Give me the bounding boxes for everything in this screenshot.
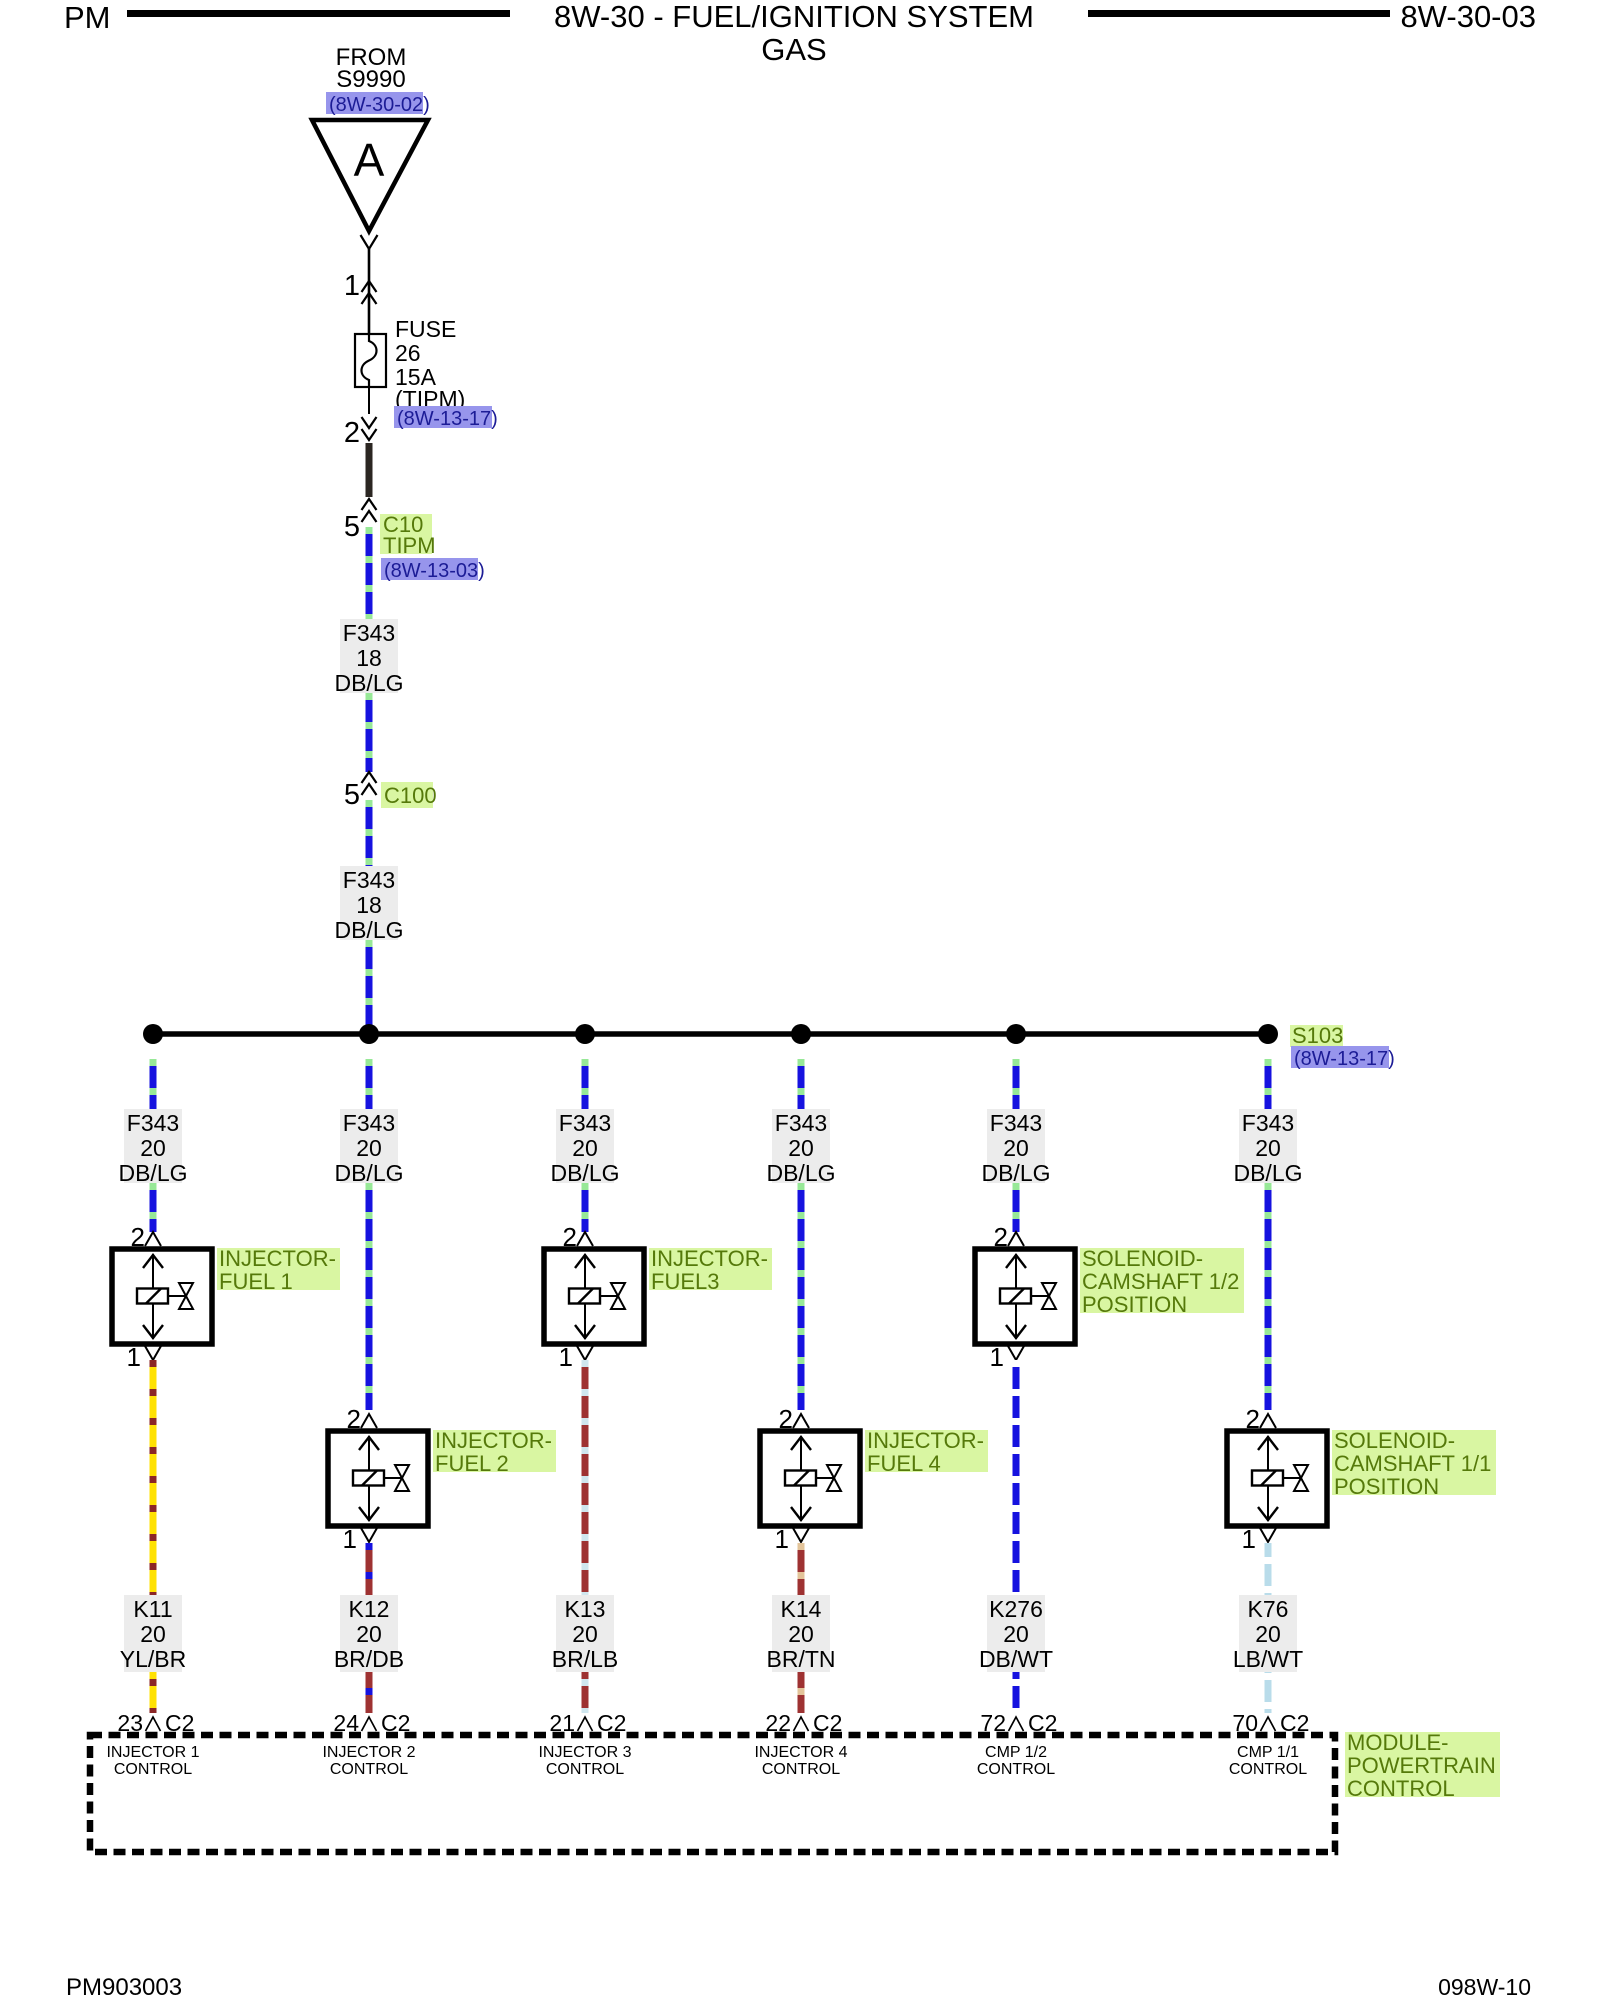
svg-text:DB/LG: DB/LG [334,1160,403,1186]
module POWERTRAIN CONTROL dashed box [90,1735,1335,1852]
svg-text:K12: K12 [349,1596,390,1622]
wire DB/LG to pin 2 [366,1183,373,1410]
wire label F343 20 DB/LG x=801 [766,1109,835,1186]
svg-text:20: 20 [356,1621,382,1647]
reference (8W-30-02) [326,92,430,116]
wire DB/LG to pin 2 [1013,1183,1020,1232]
wire K12 BR/DB [366,1543,373,1713]
pin chevron at PCM [794,1717,809,1731]
svg-text:FUEL 4: FUEL 4 [867,1451,941,1476]
pin 1 chevron [793,1528,809,1542]
wire label F343 20 DB/LG x=1268 [1233,1109,1302,1186]
junction dot at x=1016 [1006,1024,1026,1044]
svg-text:20: 20 [572,1135,598,1161]
solenoid CAMSHAFT 1/1 POSITION [1227,1431,1327,1526]
svg-text:K76: K76 [1248,1596,1289,1622]
wire label K12 20 BR/DB [334,1595,404,1672]
wire below fuse [368,387,370,414]
fuse 26 15A TIPM [355,334,386,387]
pin 2 chevron [1260,1414,1276,1428]
wire F343 18 DB/LG segment 1 [366,527,373,619]
svg-text:(8W-30-02): (8W-30-02) [329,94,430,116]
svg-text:1: 1 [775,1524,789,1554]
svg-text:BR/DB: BR/DB [334,1646,404,1672]
pin 2 chevron [145,1232,161,1246]
svg-text:DB/WT: DB/WT [979,1646,1053,1672]
wire label K13 20 BR/LB [552,1595,618,1672]
header rule right [1088,10,1390,17]
wire K13 BR/LB [582,1360,589,1713]
svg-text:SOLENOID-: SOLENOID- [1334,1428,1455,1453]
wire label F343 20 DB/LG x=153 [118,1109,187,1186]
label solenoid CAMSHAFT 1/2 POSITION [1080,1246,1244,1317]
svg-text:20: 20 [356,1135,382,1161]
svg-text:INJECTOR-: INJECTOR- [867,1428,984,1453]
svg-text:8W-30 - FUEL/IGNITION SYSTEM: 8W-30 - FUEL/IGNITION SYSTEM [554,0,1034,34]
wire F343 18 DB/LG segment 2 [366,693,373,772]
svg-text:5: 5 [344,779,360,811]
svg-text:20: 20 [572,1621,598,1647]
svg-text:GAS: GAS [761,32,826,67]
svg-text:INJECTOR 4: INJECTOR 4 [754,1744,847,1761]
svg-text:C100: C100 [384,783,437,808]
wire BK black segment [366,443,373,497]
junction dot at x=369 [359,1024,379,1044]
connector C10 TIPM label [380,512,436,558]
svg-text:S9990: S9990 [336,66,405,93]
label injector INJECTOR-FUEL 1 [217,1246,340,1294]
svg-text:CONTROL: CONTROL [1347,1776,1455,1801]
header rule left [127,10,510,17]
svg-text:POSITION: POSITION [1082,1292,1187,1317]
pin chevron at PCM [578,1717,593,1731]
wire label F343 18 DB/LG lower [334,866,403,943]
pin 1 chevron [1008,1346,1024,1360]
wire K276 DB/WT [1013,1360,1020,1713]
injector INJECTOR-FUEL 2 [328,1431,428,1526]
junction dot at x=153 [143,1024,163,1044]
wire K11 YL/BR [150,1360,157,1713]
wire F343 20 DB/LG branch x=153 [150,1059,157,1109]
svg-text:FUEL 2: FUEL 2 [435,1451,509,1476]
svg-text:1: 1 [344,270,360,302]
solenoid CAMSHAFT 1/2 POSITION [975,1249,1075,1344]
label injector INJECTOR-FUEL 4 [865,1428,988,1476]
svg-text:20: 20 [788,1621,814,1647]
wire F343 18 DB/LG segment 3 [366,800,373,866]
wire label F343 20 DB/LG x=369 [334,1109,403,1186]
svg-text:26: 26 [395,340,421,366]
pin 1 chevron [361,1528,377,1542]
svg-text:20: 20 [140,1621,166,1647]
pin 1 chevron [1260,1528,1276,1542]
svg-text:K13: K13 [565,1596,606,1622]
wire label K14 20 BR/TN [767,1595,836,1672]
svg-text:DB/LG: DB/LG [118,1160,187,1186]
pin chevron at PCM [1009,1717,1024,1731]
svg-text:YL/BR: YL/BR [120,1646,186,1672]
wire label F343 20 DB/LG x=585 [550,1109,619,1186]
svg-text:20: 20 [1255,1135,1281,1161]
wire F343 20 DB/LG branch x=1268 [1265,1059,1272,1109]
svg-text:F343: F343 [343,867,395,893]
svg-text:CONTROL: CONTROL [114,1761,192,1778]
svg-text:K11: K11 [133,1596,172,1622]
svg-text:20: 20 [1003,1621,1029,1647]
wire DB/LG to pin 2 [798,1183,805,1410]
off-page connector A from S9990 [312,120,428,231]
svg-text:DB/LG: DB/LG [766,1160,835,1186]
flow arrows down [362,429,377,440]
svg-text:F343: F343 [775,1110,827,1136]
svg-text:TIPM: TIPM [383,533,436,558]
svg-text:BR/LB: BR/LB [552,1646,618,1672]
svg-text:CMP 1/2: CMP 1/2 [985,1744,1047,1761]
connector C10 chevrons [362,499,377,510]
svg-text:20: 20 [1003,1135,1029,1161]
svg-text:FUEL3: FUEL3 [651,1269,719,1294]
svg-text:1: 1 [343,1524,357,1554]
label MODULE-POWERTRAIN CONTROL [1345,1730,1500,1801]
svg-text:FUEL 1: FUEL 1 [219,1269,293,1294]
svg-text:POSITION: POSITION [1334,1474,1439,1499]
svg-text:INJECTOR 2: INJECTOR 2 [322,1744,415,1761]
svg-text:INJECTOR-: INJECTOR- [651,1246,768,1271]
wire F343 18 DB/LG segment 4 [366,940,373,1034]
svg-text:18: 18 [356,645,382,671]
svg-text:F343: F343 [343,1110,395,1136]
svg-text:FUSE: FUSE [395,316,456,342]
reference (8W-13-03) [381,558,485,582]
junction dot at x=585 [575,1024,595,1044]
svg-text:DB/LG: DB/LG [334,917,403,943]
svg-text:F343: F343 [559,1110,611,1136]
svg-text:20: 20 [1255,1621,1281,1647]
wire K76 LB/WT [1265,1543,1272,1713]
label injector INJECTOR-FUEL 2 [433,1428,556,1476]
svg-text:CMP 1/1: CMP 1/1 [1237,1744,1299,1761]
svg-text:CONTROL: CONTROL [546,1761,624,1778]
svg-text:LB/WT: LB/WT [1233,1646,1303,1672]
pin 2 chevron [361,1414,377,1428]
svg-text:2: 2 [344,417,360,449]
wire DB/LG to pin 2 [582,1183,589,1232]
wire DB/LG to pin 2 [150,1183,157,1232]
svg-text:INJECTOR 1: INJECTOR 1 [106,1744,199,1761]
svg-text:INJECTOR-: INJECTOR- [435,1428,552,1453]
svg-text:SOLENOID-: SOLENOID- [1082,1246,1203,1271]
svg-text:DB/LG: DB/LG [550,1160,619,1186]
svg-text:5: 5 [344,511,360,543]
svg-text:20: 20 [140,1135,166,1161]
connector chevron below A [361,235,378,249]
injector INJECTOR-FUEL 1 [112,1249,212,1344]
pin 2 chevron [1008,1232,1024,1246]
pin 1 chevron [577,1346,593,1360]
svg-text:A: A [354,134,385,186]
injector INJECTOR-FUEL 4 [760,1431,860,1526]
splice bus S103 [148,1031,1272,1037]
svg-text:DB/LG: DB/LG [334,670,403,696]
pin 2 chevron [793,1414,809,1428]
pin chevron at PCM [362,1717,377,1731]
svg-text:K14: K14 [781,1596,822,1622]
svg-text:S103: S103 [1292,1023,1343,1048]
svg-text:POWERTRAIN: POWERTRAIN [1347,1753,1496,1778]
wire label K11 20 YL/BR [120,1595,186,1672]
svg-text:CONTROL: CONTROL [1229,1761,1307,1778]
wire DB/LG to pin 2 [1265,1183,1272,1410]
connector C100 label [381,782,437,808]
svg-text:DB/LG: DB/LG [1233,1160,1302,1186]
label injector INJECTOR-FUEL 3 [649,1246,772,1294]
svg-text:INJECTOR-: INJECTOR- [219,1246,336,1271]
wire F343 20 DB/LG branch x=1016 [1013,1059,1020,1109]
svg-text:(8W-13-17): (8W-13-17) [397,408,498,430]
svg-text:MODULE-: MODULE- [1347,1730,1448,1755]
svg-text:18: 18 [356,892,382,918]
svg-text:PM: PM [64,0,111,35]
svg-text:1: 1 [990,1342,1004,1372]
svg-text:1: 1 [1242,1524,1256,1554]
reference (8W-13-17) at S103 [1291,1046,1395,1070]
svg-text:8W-30-03: 8W-30-03 [1400,0,1536,34]
svg-text:CONTROL: CONTROL [977,1761,1055,1778]
svg-text:PM903003: PM903003 [66,1974,182,2000]
pin 2 chevron [577,1232,593,1246]
wire F343 20 DB/LG branch x=585 [582,1059,589,1109]
junction dot at x=1268 [1258,1024,1278,1044]
label solenoid CAMSHAFT 1/1 POSITION [1332,1428,1496,1499]
svg-text:CONTROL: CONTROL [330,1761,408,1778]
connector C100 chevrons [362,772,377,783]
svg-text:F343: F343 [127,1110,179,1136]
svg-text:F343: F343 [343,620,395,646]
pin chevron at PCM [146,1717,161,1731]
wire F343 20 DB/LG branch x=369 [366,1059,373,1109]
svg-text:(8W-13-17): (8W-13-17) [1294,1048,1395,1070]
svg-text:DB/LG: DB/LG [981,1160,1050,1186]
svg-text:K276: K276 [989,1596,1043,1622]
svg-text:(8W-13-03): (8W-13-03) [384,560,485,582]
svg-text:098W-10: 098W-10 [1438,1974,1531,2000]
injector INJECTOR-FUEL 3 [544,1249,644,1344]
wire label F343 20 DB/LG x=1016 [981,1109,1050,1186]
svg-text:CAMSHAFT 1/1: CAMSHAFT 1/1 [1334,1451,1491,1476]
svg-text:F343: F343 [1242,1110,1294,1136]
junction dot at x=801 [791,1024,811,1044]
svg-text:CAMSHAFT 1/2: CAMSHAFT 1/2 [1082,1269,1239,1294]
svg-text:INJECTOR 3: INJECTOR 3 [538,1744,631,1761]
flow arrows up [362,281,377,292]
wire F343 20 DB/LG branch x=801 [798,1059,805,1109]
wire from A to fuse [368,249,371,334]
pin 1 chevron [145,1346,161,1360]
svg-text:BR/TN: BR/TN [767,1646,836,1672]
wire label K276 20 DB/WT [979,1595,1053,1672]
svg-text:1: 1 [127,1342,141,1372]
wire label K76 20 LB/WT [1233,1595,1303,1672]
svg-text:CONTROL: CONTROL [762,1761,840,1778]
pin chevron at PCM [1261,1717,1276,1731]
svg-text:1: 1 [559,1342,573,1372]
reference (8W-13-17) at fuse [394,406,498,430]
wire K14 BR/TN [798,1543,805,1713]
wire label F343 18 DB/LG upper [334,619,403,696]
svg-text:F343: F343 [990,1110,1042,1136]
svg-text:20: 20 [788,1135,814,1161]
splice S103 label [1290,1023,1343,1048]
